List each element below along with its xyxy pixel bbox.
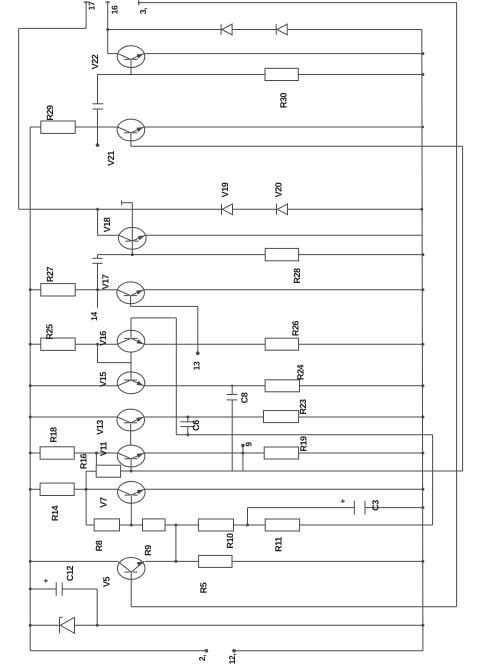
- svg-text:V17: V17: [101, 274, 111, 289]
- wire C8 top lead: [231, 386, 233, 395]
- wire V17 collector to right bus: [144, 289, 423, 291]
- svg-text:R25: R25: [44, 324, 54, 340]
- transistor V5: [117, 558, 145, 580]
- capacitor C12: [56, 565, 75, 595]
- svg-text:12,: 12,: [227, 654, 237, 665]
- transistor V22: [117, 46, 145, 68]
- wire R11 right to feedback loop: [300, 524, 433, 526]
- svg-text:C6: C6: [191, 420, 201, 431]
- terminal 12 end: [232, 649, 236, 653]
- terminal 3 tick mark: [138, 0, 140, 5]
- resistor R16: [79, 453, 121, 477]
- svg-text:R5: R5: [198, 582, 208, 593]
- junction V11 emitter node: [130, 470, 133, 473]
- wire bottom left to terminal 2: [30, 650, 206, 652]
- wire link R9 row to R5 row: [175, 525, 177, 561]
- svg-text:R28: R28: [292, 268, 302, 284]
- node 13 end: [196, 351, 200, 355]
- label node 9: [244, 442, 254, 447]
- svg-text:13: 13: [192, 361, 202, 370]
- wire V16 emitter to V15: [130, 352, 132, 380]
- junction C6 bottom: [186, 433, 189, 436]
- svg-text:3,: 3,: [138, 8, 148, 14]
- svg-text:V19: V19: [220, 182, 230, 197]
- junction C6 top: [186, 416, 189, 419]
- wire C6 bottom lead: [187, 427, 189, 435]
- transistor V11: [117, 445, 145, 467]
- svg-text:V7: V7: [99, 497, 109, 508]
- wire terminal 16 stub: [107, 2, 109, 30]
- svg-text:9: 9: [244, 442, 254, 447]
- wire V13 base row: [30, 416, 117, 418]
- terminal 2 end: [205, 649, 209, 653]
- wire cap C-a bottom lead: [97, 109, 99, 145]
- label terminal 2: [197, 655, 207, 661]
- diode V19: [220, 182, 233, 214]
- resistor R9: [143, 519, 166, 556]
- resistor R5: [198, 555, 232, 593]
- wire terminal 17 to left rail: [19, 2, 86, 28]
- svg-text:17: 17: [87, 1, 97, 10]
- polarity + of C3: [339, 498, 348, 503]
- wire R10 to R11: [234, 524, 266, 526]
- resistor R14: [40, 483, 74, 521]
- wire R27 row to V17 base: [30, 289, 117, 291]
- wire V15 collector row through R24: [145, 385, 423, 387]
- diode D-a on node16 row: [221, 24, 232, 35]
- wire right bus rail: [422, 30, 423, 651]
- svg-text:R14: R14: [50, 505, 60, 521]
- svg-text:V18: V18: [102, 217, 112, 232]
- wire C12 row: [30, 589, 97, 625]
- label terminal 16: [110, 5, 120, 14]
- svg-text:C12: C12: [65, 565, 75, 581]
- terminal 16 tick mark: [105, 1, 110, 3]
- wire V21 emitter to right loop: [131, 133, 463, 471]
- resistor R11: [265, 519, 299, 552]
- wire R25 row to V16 base: [30, 343, 118, 345]
- wire V5 base row: [30, 560, 117, 562]
- junction left rail V5 base: [29, 560, 32, 563]
- transistor V18: [119, 227, 147, 249]
- wire left rail upper segment: [18, 28, 20, 209]
- wire V22 base from terminal 16: [108, 30, 118, 54]
- capacitor C8: [227, 392, 250, 403]
- svg-text:C8: C8: [240, 392, 250, 403]
- svg-text:2,: 2,: [197, 655, 207, 661]
- wire V18 gate stub: [122, 203, 133, 241]
- resistor R8: [94, 519, 120, 551]
- svg-text:+: +: [339, 498, 348, 503]
- wire V13 collector row through R23: [144, 416, 423, 418]
- svg-text:+: +: [42, 578, 51, 583]
- junction C3 row at bus: [421, 506, 424, 509]
- junction left rail C12: [29, 588, 32, 591]
- transistor V15: [117, 372, 145, 394]
- junction left rail diode row: [29, 624, 32, 627]
- resistor R23: [264, 399, 308, 423]
- wire V11 collector row through R19: [145, 452, 423, 454]
- junction V7 collector at bus: [421, 488, 424, 491]
- svg-text:R10: R10: [225, 533, 235, 549]
- svg-text:C3: C3: [371, 500, 381, 511]
- wire V17 emitter to node 13: [131, 296, 198, 354]
- junction C8 top at V15 row: [231, 385, 233, 387]
- svg-text:V11: V11: [99, 441, 109, 456]
- diode V20: [274, 182, 288, 214]
- junction V17 base with cap lead: [96, 288, 99, 291]
- junction R24 row at bus: [421, 384, 424, 387]
- svg-text:R18: R18: [49, 427, 59, 443]
- junction terminal 16 node: [106, 28, 109, 31]
- svg-text:R26: R26: [290, 320, 300, 336]
- resistor R18: [40, 427, 74, 459]
- svg-text:14: 14: [89, 312, 99, 321]
- svg-text:V5: V5: [102, 577, 112, 588]
- label V11: [99, 441, 109, 456]
- label node 14: [89, 312, 99, 321]
- junction left rail V15 base: [29, 384, 32, 387]
- transistor V16: [117, 330, 145, 352]
- wire V7 emitter: [130, 495, 132, 525]
- junction C12 drop at diode row: [96, 624, 99, 627]
- wire C6 top lead: [187, 417, 189, 422]
- junction R23 row at bus: [421, 416, 424, 419]
- terminal 17 tick mark: [84, 1, 89, 3]
- wire V11 base to R16 corner: [95, 453, 97, 465]
- resistor R29: [41, 105, 75, 133]
- svg-text:R27: R27: [45, 266, 55, 282]
- node 9 end: [241, 444, 245, 448]
- junction R9-R10 tap: [174, 524, 177, 527]
- transistor V21: [117, 119, 145, 141]
- wire R14 row to V7 base: [30, 488, 118, 490]
- wire V16 collector row through R26: [145, 343, 423, 345]
- junction left rail V13 base: [29, 416, 32, 419]
- junction R5 row at bus: [421, 560, 424, 563]
- label terminal 17: [87, 1, 97, 10]
- label V15: [98, 372, 108, 387]
- resistor R19: [264, 436, 308, 459]
- wire V18 base drop: [98, 209, 119, 235]
- junction V17 collector at bus: [421, 288, 424, 291]
- wire V22 emitter row through R30: [98, 74, 423, 76]
- label V18: [102, 217, 112, 232]
- junction diode row to V18 base: [96, 208, 99, 211]
- label node 13: [192, 361, 202, 370]
- wire emitter node-9 row: [131, 470, 463, 472]
- wire V21 collector to right bus: [145, 126, 423, 128]
- junction V18 emitter node: [131, 253, 134, 256]
- wire R29 to V21 base: [75, 126, 117, 128]
- diode V-bottom: [60, 617, 75, 633]
- wire R8 to R9: [120, 524, 143, 526]
- capacitor C6: [180, 420, 201, 431]
- wire V5 emitter row: [131, 572, 456, 607]
- wire V7 collector to right bus: [145, 488, 423, 490]
- wire V16 top link: [131, 318, 176, 435]
- wire V13 emitter to V11: [130, 423, 132, 445]
- resistor R24: [265, 364, 305, 391]
- wire V18 collector to right bus: [146, 234, 423, 236]
- junction diode row at bus: [421, 624, 424, 627]
- wire long left rail: [29, 127, 31, 651]
- label terminal 12: [227, 654, 237, 665]
- label V13: [95, 420, 105, 435]
- polarity + of C12: [42, 578, 51, 583]
- svg-text:R19: R19: [299, 436, 309, 452]
- svg-text:V13: V13: [95, 420, 105, 435]
- junction R28 row at bus: [421, 253, 424, 256]
- svg-text:R8: R8: [94, 540, 104, 551]
- junction R30 row at bus: [421, 73, 424, 76]
- transistor V17: [117, 282, 145, 304]
- junction left rail R14: [29, 488, 32, 491]
- junction diode row at bus: [420, 208, 423, 211]
- wire cap C-b top lead: [97, 255, 99, 259]
- wire R29 left to long left rail corner: [30, 126, 41, 128]
- svg-text:R24: R24: [296, 364, 306, 380]
- wire V22 emitter: [130, 59, 132, 74]
- junction left rail R25: [29, 343, 32, 346]
- svg-text:R23: R23: [298, 399, 308, 415]
- svg-text:V22: V22: [90, 54, 100, 69]
- wire V19-V20 diode row: [19, 208, 422, 210]
- wire V5 collector row through R5: [145, 560, 423, 562]
- wire C8 bottom lead: [231, 400, 233, 471]
- wire cap C-b lower lead through V17 base to node 14: [97, 263, 99, 307]
- wire V16 base-emitter link: [98, 344, 132, 362]
- svg-text:R29: R29: [45, 105, 55, 121]
- resistor R28: [265, 248, 302, 283]
- wire V22 collector to right bus: [145, 53, 423, 55]
- svg-text:R16: R16: [79, 453, 89, 469]
- junction node 9 at R19 row: [241, 452, 244, 455]
- junction R26 row at bus: [421, 343, 424, 346]
- capacitor C-a (V22-V21 coupling): [93, 104, 104, 109]
- transistor V7: [118, 481, 146, 503]
- wire node 9 stub: [242, 445, 244, 471]
- wire C3 row from R10-R11 tap: [248, 508, 423, 525]
- label V7: [99, 497, 109, 508]
- wire R18 row to V11 base: [30, 452, 118, 454]
- wire V15 base row: [30, 385, 118, 387]
- wire feedback row to R11 loop: [176, 435, 432, 525]
- resistor R27: [41, 266, 75, 296]
- junction V21 collector at bus: [422, 126, 424, 128]
- wire terminal 3 along top to right edge: [139, 3, 457, 607]
- svg-text:R30: R30: [278, 92, 288, 108]
- junction V22 collector at bus: [421, 52, 424, 55]
- wire V18 emitter: [131, 241, 133, 255]
- junction R10-R11 tap: [246, 524, 249, 527]
- junction left rail R18: [29, 452, 32, 455]
- resistor R25: [41, 324, 75, 350]
- diode D-b on node16 row: [276, 24, 287, 35]
- junction link at R5 row: [174, 560, 177, 563]
- wire R16 right to V11 emitter: [121, 470, 132, 472]
- label V22: [90, 54, 100, 69]
- label V21: [106, 151, 116, 166]
- svg-text:V16: V16: [98, 331, 108, 346]
- wire cap C-a top lead: [97, 75, 99, 104]
- tick at V18 stub end: [121, 200, 123, 205]
- svg-text:16: 16: [110, 5, 120, 14]
- resistor R10: [198, 519, 235, 549]
- label terminal 3: [138, 8, 148, 14]
- svg-text:R9: R9: [143, 545, 153, 556]
- svg-text:V21: V21: [106, 151, 116, 166]
- junction R19 row at bus: [421, 452, 424, 455]
- resistor R26: [265, 320, 300, 350]
- wire node16 diode row: [108, 29, 422, 31]
- svg-text:V15: V15: [98, 372, 108, 387]
- svg-text:V20: V20: [274, 182, 284, 197]
- wire V18 emitter row through R28: [98, 254, 423, 256]
- capacitor C-b (V18-V17 coupling): [92, 258, 102, 263]
- wire R9 to R10: [165, 524, 198, 526]
- transistor V13: [117, 409, 145, 431]
- junction V16 base tap: [96, 343, 99, 346]
- wire V11 emitter: [130, 459, 132, 471]
- node end below V21 base: [96, 143, 100, 147]
- label V16: [98, 331, 108, 346]
- wire bottom diode row: [30, 624, 423, 626]
- label V5: [102, 577, 112, 588]
- capacitor C3: [354, 500, 380, 515]
- junction V7 emitter node: [130, 524, 133, 527]
- wire terminal 12 to right bus: [234, 650, 423, 652]
- resistor R30: [265, 68, 298, 108]
- svg-text:R11: R11: [274, 537, 284, 552]
- junction left rail R27: [29, 288, 32, 291]
- junction V11 base tap: [95, 452, 98, 455]
- label V17: [101, 274, 111, 289]
- wire R16 left link down to R8: [86, 471, 96, 525]
- junction R14 row with R16-R8 link: [85, 488, 88, 491]
